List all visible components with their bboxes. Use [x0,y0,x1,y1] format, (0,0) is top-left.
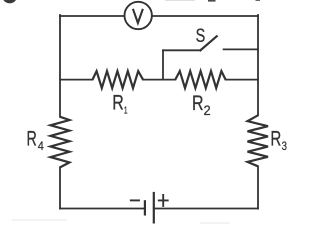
battery positive plate (long) [153,193,155,222]
wire R1-R2 [143,79,175,81]
wire switch right [224,48,258,50]
resistor R3 [248,115,269,166]
voltmeter V [125,2,152,29]
resistor R2 [175,71,225,88]
svg-text:R: R [27,127,37,150]
battery negative plate (short) [144,201,146,214]
faint smudges (bottom) [12,219,230,224]
label R1 [112,91,127,116]
faint cropped text marks (top edge) [165,0,260,2]
svg-text:R: R [192,91,204,115]
wire right rail upper [257,15,259,115]
question badge (partial dark circle, top-left) [2,0,17,3]
switch S blade (open) [200,36,216,50]
resistor R1 [93,71,144,88]
svg-text:2: 2 [204,103,211,118]
svg-text:R: R [270,126,281,150]
wire top-right [152,15,258,17]
label S [196,24,206,47]
resistor R4 [51,117,70,168]
wire right rail lower [257,166,259,208]
wire left rail lower [59,167,61,208]
wire middle-right [226,79,258,81]
wire middle-left [60,79,93,81]
wire left rail upper [59,15,61,117]
label R2 [192,91,211,119]
wire top-left [60,15,125,17]
svg-text:S: S [196,24,206,47]
svg-text:1: 1 [124,104,128,116]
wire bottom-right [154,208,258,210]
wire switch left [163,49,200,51]
label R4 [27,127,44,153]
svg-text:R: R [112,91,124,115]
svg-text:3: 3 [282,140,287,153]
label minus [131,199,139,201]
label plus [159,195,168,206]
wire switch stub [162,50,164,79]
svg-text:4: 4 [38,141,44,153]
wire bottom-left [60,208,145,210]
label R3 [270,126,287,154]
